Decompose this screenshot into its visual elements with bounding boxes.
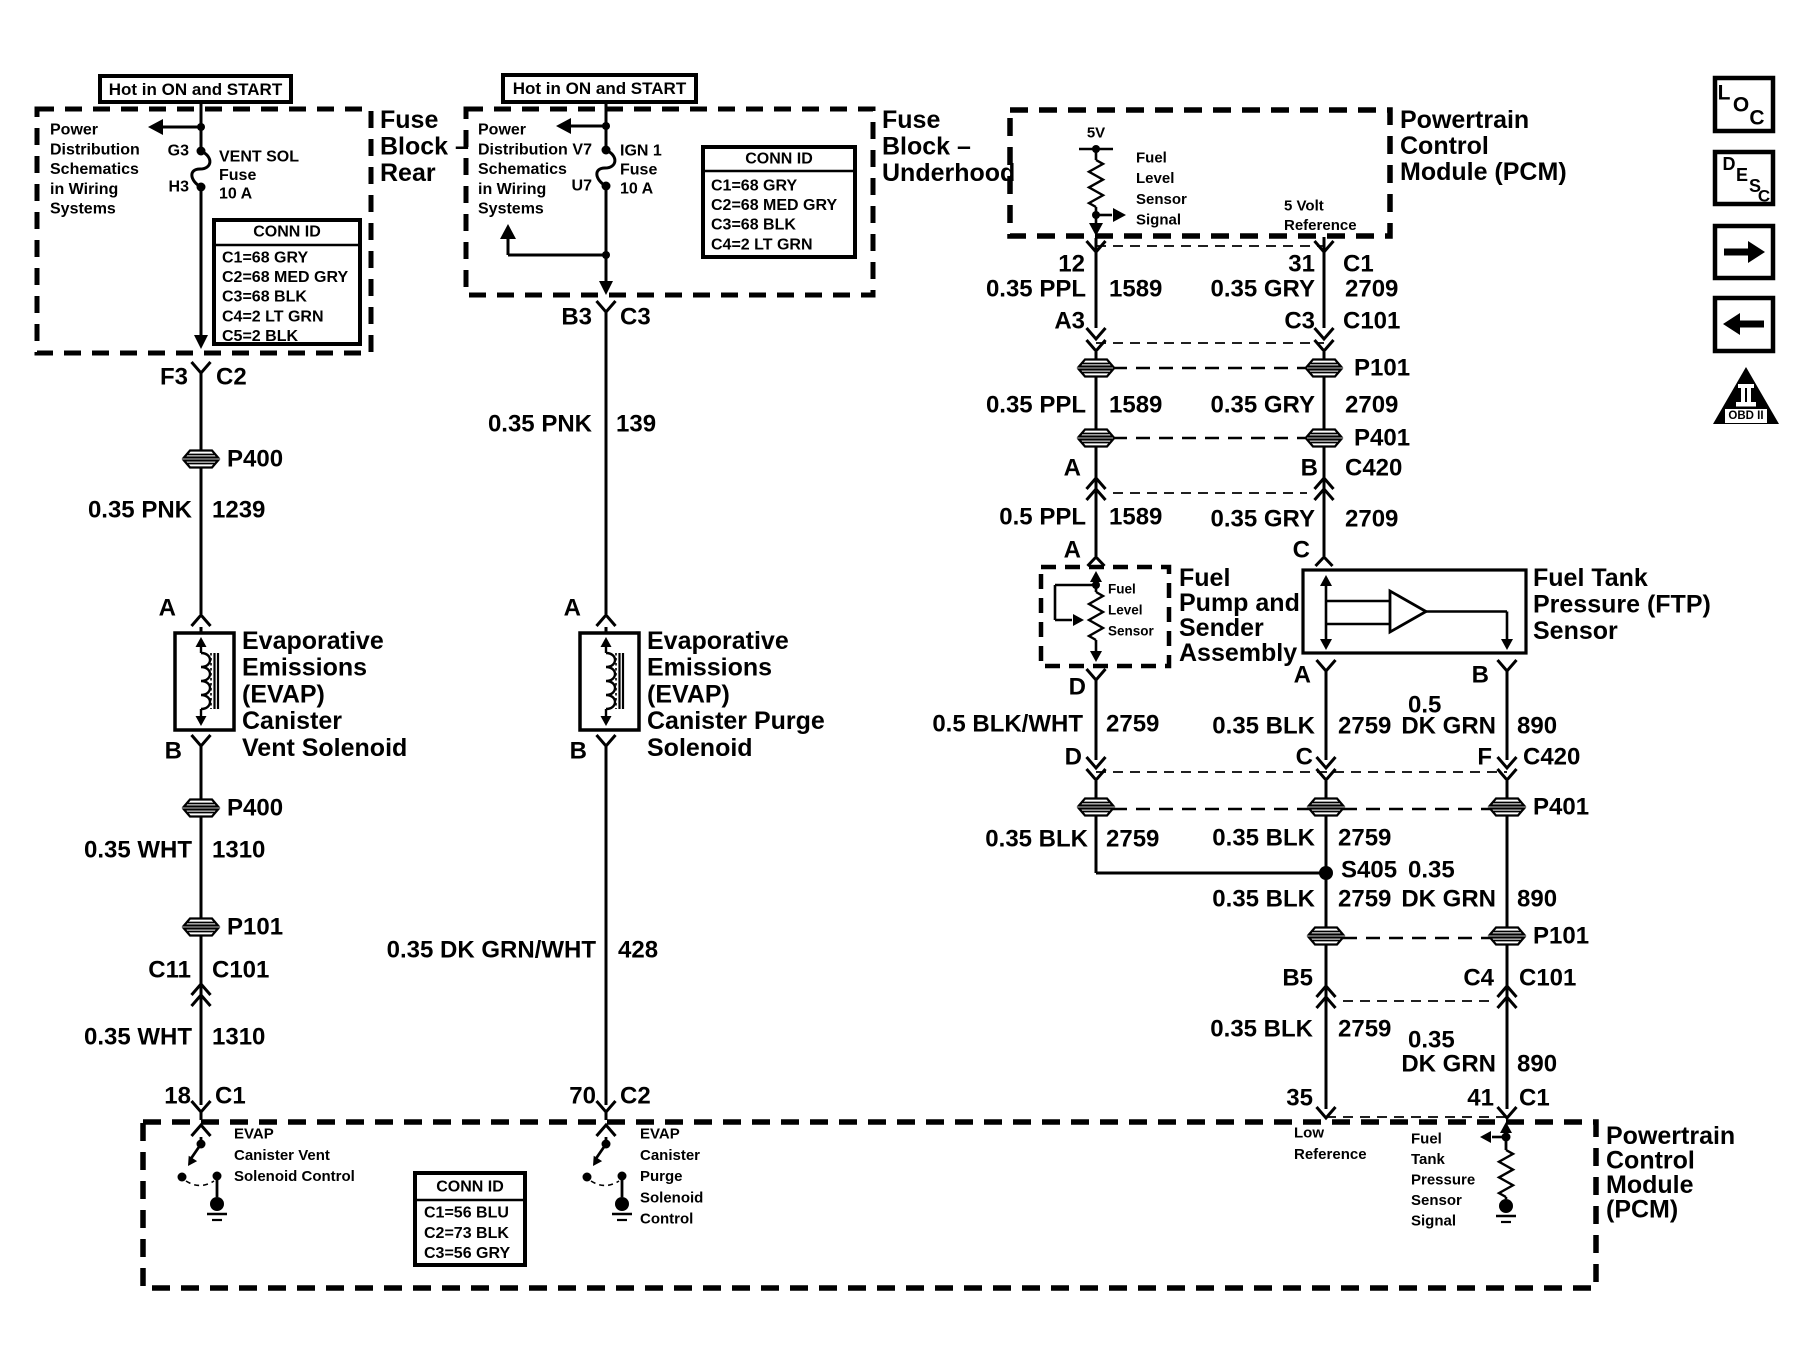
svg-text:0.35 PNK: 0.35 PNK [488, 411, 593, 438]
svg-text:12: 12 [1058, 251, 1085, 278]
note power distribution schematics (left) [50, 122, 140, 218]
svg-text:Power: Power [478, 122, 526, 139]
wire hot feed into fuse G3 [200, 100, 203, 151]
wire C2 to P400 [200, 373, 203, 451]
label Fuel Tank Pressure (FTP) Sensor [1533, 564, 1711, 645]
svg-text:5V: 5V [1087, 125, 1105, 142]
svg-text:139: 139 [616, 411, 656, 438]
note power distribution schematics (middle) [478, 122, 568, 218]
svg-text:CONN ID: CONN ID [745, 151, 813, 168]
fuse IGN 1 10A [597, 146, 615, 191]
svg-text:C1=68 GRY: C1=68 GRY [711, 178, 797, 195]
fuel level sensor (variable resistor) [1055, 571, 1103, 662]
resistor (fuel level pull-up) [1089, 149, 1103, 232]
svg-text:Level: Level [1136, 170, 1174, 187]
svg-text:Distribution: Distribution [50, 141, 140, 158]
svg-text:EVAP: EVAP [640, 1126, 680, 1143]
connector C1 row: pins 12 / 31 [1058, 237, 1373, 278]
wire label 0.35 WHT 1310 (second) [84, 1024, 265, 1051]
svg-text:2709: 2709 [1345, 276, 1398, 303]
svg-text:C: C [1758, 187, 1770, 206]
svg-text:Systems: Systems [50, 201, 116, 218]
svg-text:Power: Power [50, 122, 98, 139]
wire labels 0.35 PPL 1589 / 0.35 GRY 2709 [986, 276, 1398, 303]
svg-text:(EVAP): (EVAP) [242, 680, 325, 708]
svg-text:1310: 1310 [212, 1024, 265, 1051]
pin B (purge solenoid) [570, 735, 616, 765]
svg-text:0.35 PPL: 0.35 PPL [986, 276, 1086, 303]
connector C420 row: pins D / C / F [1065, 744, 1581, 781]
svg-text:0.35 BLK: 0.35 BLK [1210, 1016, 1313, 1043]
wire labels 0.5 BLK/WHT 2759 / 0.35 BLK 2759 / 0.5 DK GRN 890 [932, 692, 1557, 740]
legend box right-arrow [1715, 226, 1773, 278]
svg-text:Evaporative: Evaporative [242, 627, 384, 655]
svg-text:F: F [1477, 744, 1492, 771]
svg-text:V7: V7 [572, 142, 592, 159]
svg-text:A: A [1064, 455, 1081, 482]
hot-in-on-start box (middle) [503, 75, 696, 102]
svg-text:E: E [1736, 165, 1748, 185]
svg-text:(EVAP): (EVAP) [647, 680, 730, 708]
svg-text:CONN ID: CONN ID [253, 224, 321, 241]
svg-text:C3: C3 [1284, 308, 1315, 335]
svg-text:Hot in ON and START: Hot in ON and START [109, 80, 283, 99]
svg-text:890: 890 [1517, 713, 1557, 740]
svg-text:31: 31 [1288, 251, 1315, 278]
wire label 0.35 PNK 1239 [88, 497, 265, 524]
label 5 Volt Reference [1284, 198, 1357, 235]
svg-text:2709: 2709 [1345, 392, 1398, 419]
legend box left-arrow [1715, 298, 1773, 351]
svg-text:DK GRN: DK GRN [1401, 1051, 1496, 1078]
svg-text:B3: B3 [561, 304, 592, 331]
svg-text:F3: F3 [160, 364, 188, 391]
svg-text:A: A [1294, 662, 1311, 689]
svg-text:C2=68 MED GRY: C2=68 MED GRY [711, 197, 837, 214]
pin 18 / C1 (PCM) [164, 1083, 245, 1121]
svg-text:B5: B5 [1282, 965, 1313, 992]
wire P101 to C101 [200, 935, 203, 984]
svg-text:Schematics: Schematics [478, 161, 567, 178]
wire labels 0.35 BLK 2759 / 0.35 DK GRN 890 [1210, 1016, 1557, 1078]
svg-text:C2: C2 [216, 364, 247, 391]
fuel level sensor signal tap [1092, 208, 1126, 222]
svg-text:in Wiring: in Wiring [50, 181, 118, 198]
svg-text:U7: U7 [572, 178, 593, 195]
svg-text:Sensor: Sensor [1533, 617, 1618, 645]
svg-text:Control: Control [1400, 132, 1489, 160]
svg-text:Block –: Block – [882, 133, 971, 161]
svg-text:2759: 2759 [1338, 825, 1391, 852]
svg-text:C1: C1 [215, 1083, 246, 1110]
svg-text:10 A: 10 A [219, 186, 253, 203]
label Fuel Tank Pressure Sensor Signal [1411, 1131, 1475, 1230]
legend box LOC [1715, 78, 1773, 131]
wire fuse H3 down to box exit [194, 187, 208, 349]
pin 70 / C2 (PCM) [569, 1083, 650, 1121]
svg-text:Signal: Signal [1411, 1213, 1456, 1230]
svg-text:P101: P101 [1533, 923, 1589, 950]
legend box DESC [1715, 152, 1773, 206]
label Powertrain Control Module (PCM) bottom [1606, 1122, 1735, 1224]
svg-text:C: C [1296, 744, 1313, 771]
svg-text:2759: 2759 [1338, 713, 1391, 740]
svg-text:35: 35 [1286, 1085, 1313, 1112]
svg-text:D: D [1065, 744, 1082, 771]
wire label 0.35 PNK 139 [488, 411, 656, 438]
label Fuse Block - Rear [380, 106, 469, 187]
svg-text:Signal: Signal [1136, 212, 1181, 229]
hot-in-on-start box (left) [100, 76, 291, 102]
connector F3/C2 [160, 362, 247, 391]
svg-text:Sensor: Sensor [1108, 624, 1155, 639]
svg-text:890: 890 [1517, 886, 1557, 913]
svg-text:2759: 2759 [1106, 826, 1159, 853]
pin A (purge solenoid) [564, 595, 616, 634]
svg-text:C3=56 GRY: C3=56 GRY [424, 1245, 510, 1262]
svg-text:Fuel: Fuel [1136, 150, 1167, 167]
svg-text:DK GRN: DK GRN [1401, 713, 1496, 740]
svg-text:2759: 2759 [1338, 1016, 1391, 1043]
FTP sensor signal input circuit [1480, 1122, 1516, 1222]
svg-text:0.35 WHT: 0.35 WHT [84, 1024, 192, 1051]
svg-text:H3: H3 [169, 179, 190, 196]
connector B3/C3 [561, 301, 650, 331]
svg-text:B: B [1301, 455, 1318, 482]
wire labels 0.5 PPL 1589 / 0.35 GRY 2709 [999, 504, 1398, 533]
wires C420 to P401 [1096, 781, 1507, 799]
svg-text:C4=2 LT GRN: C4=2 LT GRN [711, 236, 813, 253]
svg-text:Canister Purge: Canister Purge [647, 707, 825, 735]
wires C101 to PCM pins 35 / 41 [1326, 944, 1507, 1109]
svg-text:Assembly: Assembly [1179, 639, 1297, 667]
wires P101 to P401 [1096, 376, 1324, 430]
svg-text:Solenoid: Solenoid [647, 734, 753, 762]
svg-text:Low: Low [1294, 1125, 1324, 1142]
pin G3 [168, 143, 189, 160]
wire U7 down with branch [599, 186, 613, 295]
svg-text:18: 18 [164, 1083, 191, 1110]
svg-text:Control: Control [640, 1211, 693, 1228]
sensor entry pins A / C [1064, 505, 1333, 566]
svg-text:C: C [1293, 537, 1310, 564]
FTP pins A / B [1294, 660, 1517, 760]
svg-text:0.35 GRY: 0.35 GRY [1211, 276, 1316, 303]
svg-text:2759: 2759 [1106, 711, 1159, 738]
EVAP canister purge solenoid [580, 633, 639, 730]
svg-text:Sensor: Sensor [1411, 1192, 1462, 1209]
label Powertrain Control Module (PCM) top [1400, 106, 1567, 186]
svg-text:Pressure (FTP): Pressure (FTP) [1533, 591, 1711, 619]
wire labels 0.35 PPL 1589 / 0.35 GRY 2709 (mid) [986, 392, 1398, 419]
wire B down to PCM pin 70 [605, 746, 608, 1105]
wire P400 to vent solenoid pin A [200, 467, 203, 614]
svg-text:Module (PCM): Module (PCM) [1400, 158, 1567, 186]
svg-text:A3: A3 [1054, 308, 1085, 335]
svg-text:2759: 2759 [1338, 886, 1391, 913]
pin A (vent solenoid) [159, 595, 211, 634]
branch to power distribution arrow up [500, 224, 610, 259]
label EVAP Canister Purge Solenoid Control [640, 1126, 703, 1228]
svg-text:OBD II: OBD II [1728, 410, 1763, 422]
wire 31 to C101 (0.35 GRY 2709) [1323, 252, 1326, 328]
svg-text:S405: S405 [1341, 857, 1397, 884]
connector C420 row: pins A / B [1064, 446, 1403, 505]
wire labels 0.35 BLK 2759 x2 [985, 825, 1391, 853]
svg-text:Canister: Canister [640, 1147, 700, 1164]
fuse VENT SOL 10A [192, 147, 210, 192]
svg-text:Emissions: Emissions [242, 654, 367, 682]
svg-text:Tank: Tank [1411, 1151, 1446, 1168]
svg-text:0.5 PPL: 0.5 PPL [999, 504, 1086, 531]
svg-text:0.35 BLK: 0.35 BLK [1212, 713, 1315, 740]
label Fuel Level Sensor Signal [1136, 150, 1187, 229]
label evaporative emissions canister vent solenoid [242, 627, 407, 762]
svg-text:1589: 1589 [1109, 276, 1162, 303]
wire label 0.35 DK GRN/WHT 428 [387, 937, 658, 964]
grommet P400 (lower) [183, 795, 283, 822]
label fuel level sensor [1108, 582, 1155, 639]
EVAP purge solenoid control switch [583, 1125, 633, 1220]
pin H3 [169, 179, 190, 196]
svg-text:1239: 1239 [212, 497, 265, 524]
svg-text:P401: P401 [1354, 425, 1410, 452]
wire label 0.35 WHT 1310 [84, 837, 265, 864]
wires C101 to P101 [1096, 352, 1324, 360]
svg-text:P101: P101 [1354, 355, 1410, 382]
svg-text:C1=68 GRY: C1=68 GRY [222, 250, 308, 267]
fuel pump and sender assembly dashed box [1041, 567, 1169, 666]
conn id table (fuse block rear) [214, 220, 360, 345]
grommet P101 (left column) [183, 914, 283, 941]
svg-text:0.35 BLK: 0.35 BLK [1212, 825, 1315, 852]
pin U7 [572, 178, 593, 195]
svg-text:10 A: 10 A [620, 181, 654, 198]
svg-text:0.35 WHT: 0.35 WHT [84, 837, 192, 864]
wire FTP B to P101 [1506, 815, 1509, 928]
grommets P101 (lower) [1308, 923, 1589, 950]
svg-text:C4: C4 [1463, 965, 1494, 992]
grommets P101 (pass to engine harness) [1078, 355, 1410, 382]
label VENT SOL Fuse 10 A [219, 149, 299, 203]
5V supply node [1079, 125, 1113, 154]
svg-text:1589: 1589 [1109, 504, 1162, 531]
arrow exits PCM (pin 12) [1089, 223, 1103, 236]
svg-text:C3=68 BLK: C3=68 BLK [711, 217, 796, 234]
svg-text:B: B [165, 738, 182, 765]
svg-text:0.35 BLK: 0.35 BLK [1212, 886, 1315, 913]
svg-text:0.35 BLK: 0.35 BLK [985, 826, 1088, 853]
wire 12 to C101 (0.35 PPL 1589) [1095, 252, 1098, 328]
svg-text:Rear: Rear [380, 159, 436, 187]
label Fuel Pump and Sender Assembly [1179, 564, 1300, 667]
FTP internal amplifier [1320, 575, 1513, 650]
wire hot feed into fuse V7 [605, 100, 608, 150]
svg-text:VENT SOL: VENT SOL [219, 149, 299, 166]
svg-text:CONN ID: CONN ID [436, 1179, 504, 1196]
svg-text:Level: Level [1108, 603, 1143, 618]
svg-text:C101: C101 [1519, 965, 1576, 992]
svg-text:0.35 GRY: 0.35 GRY [1211, 392, 1316, 419]
svg-text:Purge: Purge [640, 1168, 683, 1185]
svg-text:0.35 PNK: 0.35 PNK [88, 497, 193, 524]
svg-text:C3=68 BLK: C3=68 BLK [222, 289, 307, 306]
arrow to power distribution (middle) [556, 118, 610, 134]
svg-text:Evaporative: Evaporative [647, 627, 789, 655]
connector C101 row: pins B5 / C4 [1282, 944, 1576, 1008]
svg-text:Reference: Reference [1294, 1146, 1367, 1163]
connector C101 row: pins A3 / C3 [1054, 308, 1400, 352]
svg-text:0.35 PPL: 0.35 PPL [986, 392, 1086, 419]
svg-text:C11: C11 [148, 957, 191, 984]
EVAP vent solenoid control switch [178, 1125, 228, 1220]
svg-text:in Wiring: in Wiring [478, 181, 546, 198]
svg-text:0.35 GRY: 0.35 GRY [1211, 506, 1316, 533]
fuse block rear dashed box [37, 109, 371, 353]
svg-text:Solenoid Control: Solenoid Control [234, 1168, 355, 1185]
connector C11/C101 [148, 935, 269, 1105]
svg-text:C420: C420 [1523, 744, 1580, 771]
svg-text:Pressure: Pressure [1411, 1172, 1475, 1189]
PCM top dashed box [1010, 110, 1390, 236]
PCM bottom dashed box [143, 1122, 1596, 1288]
svg-text:C101: C101 [1343, 308, 1400, 335]
svg-text:70: 70 [569, 1083, 596, 1110]
svg-text:1310: 1310 [212, 837, 265, 864]
svg-text:Reference: Reference [1284, 217, 1357, 234]
svg-text:Fuel: Fuel [1108, 582, 1136, 597]
svg-text:Hot in ON and START: Hot in ON and START [513, 79, 687, 98]
svg-text:Pump and: Pump and [1179, 589, 1300, 617]
svg-text:Fuse: Fuse [882, 106, 940, 134]
EVAP canister vent solenoid [175, 633, 234, 730]
conn id table (PCM bottom) [415, 1173, 525, 1265]
svg-text:0.35: 0.35 [1408, 857, 1455, 884]
svg-text:C1=56 BLU: C1=56 BLU [424, 1205, 509, 1222]
svg-text:P400: P400 [227, 446, 283, 473]
legend OBD II triangle [1713, 367, 1779, 424]
svg-text:P101: P101 [227, 914, 283, 941]
svg-text:P401: P401 [1533, 794, 1589, 821]
label Low Reference [1294, 1125, 1367, 1164]
svg-text:0.5 BLK/WHT: 0.5 BLK/WHT [932, 711, 1083, 738]
wire C3 down to purge solenoid [605, 312, 608, 614]
pin D below sender [1069, 669, 1106, 760]
svg-text:C1: C1 [1519, 1085, 1550, 1112]
pin B (vent solenoid) [165, 735, 211, 765]
svg-text:0.35 DK GRN/WHT: 0.35 DK GRN/WHT [387, 937, 597, 964]
svg-text:DK GRN: DK GRN [1401, 886, 1496, 913]
svg-text:Fuse: Fuse [219, 167, 256, 184]
svg-text:A: A [564, 595, 581, 622]
svg-text:5 Volt: 5 Volt [1284, 198, 1324, 215]
svg-text:Emissions: Emissions [647, 654, 772, 682]
svg-text:C101: C101 [212, 957, 269, 984]
svg-text:IGN 1: IGN 1 [620, 143, 662, 160]
svg-text:Systems: Systems [478, 201, 544, 218]
svg-text:A: A [1064, 537, 1081, 564]
svg-text:1589: 1589 [1109, 392, 1162, 419]
svg-text:C3: C3 [620, 304, 651, 331]
wire labels 0.35 BLK 2759 / DK GRN 890 [1212, 886, 1557, 913]
svg-text:D: D [1723, 154, 1736, 174]
pin V7 [572, 142, 592, 159]
svg-text:P400: P400 [227, 795, 283, 822]
svg-text:B: B [570, 738, 587, 765]
svg-text:Distribution: Distribution [478, 141, 568, 158]
svg-text:O: O [1733, 94, 1749, 117]
wire B to P400 (lower) [200, 746, 203, 800]
label IGN 1 Fuse 10 A [620, 143, 662, 198]
wire P400 to P101 [200, 816, 203, 919]
svg-text:41: 41 [1467, 1085, 1494, 1112]
svg-text:C2=73 BLK: C2=73 BLK [424, 1225, 509, 1242]
svg-text:Sender: Sender [1179, 614, 1264, 642]
label EVAP Canister Vent Solenoid Control [234, 1126, 355, 1186]
svg-text:428: 428 [618, 937, 658, 964]
svg-text:Vent Solenoid: Vent Solenoid [242, 734, 407, 762]
svg-text:C2: C2 [620, 1083, 651, 1110]
svg-text:Fuse: Fuse [620, 162, 657, 179]
fuse block underhood dashed box [466, 109, 873, 295]
fuel tank pressure sensor box [1303, 570, 1526, 653]
splice S405 [1096, 815, 1455, 928]
svg-text:Underhood: Underhood [882, 159, 1015, 187]
svg-text:C4=2 LT GRN: C4=2 LT GRN [222, 308, 324, 325]
svg-text:C1: C1 [1343, 251, 1374, 278]
label Fuse Block - Underhood [882, 106, 1015, 187]
svg-text:C: C [1749, 107, 1764, 130]
svg-text:C5=2 BLK: C5=2 BLK [222, 328, 298, 345]
svg-text:C2=68 MED GRY: C2=68 MED GRY [222, 269, 348, 286]
svg-text:Fuel Tank: Fuel Tank [1533, 564, 1648, 592]
grommets P401 (three wires) [1078, 794, 1589, 821]
grommets P401 [1078, 425, 1410, 452]
svg-text:Solenoid: Solenoid [640, 1189, 703, 1206]
label evaporative emissions canister purge solenoid [647, 627, 825, 762]
svg-text:G3: G3 [168, 143, 189, 160]
svg-text:0.35: 0.35 [1408, 1027, 1455, 1054]
svg-text:Fuel: Fuel [1179, 564, 1230, 592]
svg-text:890: 890 [1517, 1051, 1557, 1078]
svg-text:Fuel: Fuel [1411, 1131, 1442, 1148]
arrow to power distribution (left) [148, 119, 205, 135]
svg-text:Block –: Block – [380, 133, 469, 161]
svg-text:C420: C420 [1345, 455, 1402, 482]
svg-text:Schematics: Schematics [50, 161, 139, 178]
svg-text:Powertrain: Powertrain [1400, 106, 1529, 134]
svg-text:EVAP: EVAP [234, 1126, 274, 1143]
conn id table (fuse block underhood) [703, 147, 855, 257]
svg-text:B: B [1472, 662, 1489, 689]
grommet P400 (upper) [183, 446, 283, 473]
PCM pins 35 / 41 / C1 [1286, 1085, 1549, 1119]
svg-text:2709: 2709 [1345, 506, 1398, 533]
svg-text:Sensor: Sensor [1136, 191, 1187, 208]
svg-text:L: L [1718, 82, 1731, 105]
svg-text:A: A [159, 595, 176, 622]
svg-text:D: D [1069, 674, 1086, 701]
svg-text:Fuse: Fuse [380, 106, 438, 134]
svg-text:Canister: Canister [242, 707, 342, 735]
svg-text:Canister Vent: Canister Vent [234, 1147, 330, 1164]
svg-text:(PCM): (PCM) [1606, 1196, 1678, 1224]
